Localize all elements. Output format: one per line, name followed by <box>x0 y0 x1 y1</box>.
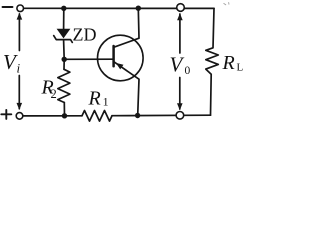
svg-text:i: i <box>17 61 21 76</box>
svg-text:1: 1 <box>103 94 109 108</box>
svg-text:ZD: ZD <box>73 25 97 45</box>
svg-text:0: 0 <box>185 65 191 77</box>
svg-text:L: L <box>237 62 244 74</box>
svg-text:R: R <box>88 87 101 109</box>
svg-text:V: V <box>170 53 185 77</box>
svg-text:2: 2 <box>51 87 57 101</box>
svg-text:R: R <box>222 52 235 74</box>
